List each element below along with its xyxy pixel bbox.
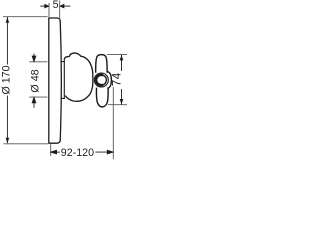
- dim 74: dimension line: [121, 55, 123, 105]
- handle bell dome: [64, 53, 93, 101]
- dim O170: top arrow: [6, 17, 10, 23]
- dim 5: right arrow: [60, 4, 70, 7]
- dim 74: top extension tick: [107, 54, 127, 56]
- svg-text:92-120: 92-120: [61, 147, 94, 159]
- escutcheon plate (side profile): [49, 18, 62, 143]
- dim 5: left extension line: [48, 3, 50, 17]
- dim O170: dimension line: [6, 17, 8, 143]
- dim 5: left arrow: [40, 4, 48, 7]
- svg-text:Ø 170: Ø 170: [0, 65, 12, 94]
- dim O48: bottom extension tick: [29, 96, 47, 98]
- dim 74: bottom extension tick: [108, 104, 127, 106]
- dim 92-120: left arrow: [51, 150, 60, 154]
- dim 74: bottom arrow (pointing down): [120, 99, 124, 105]
- dim 92-120: left extension line: [50, 144, 52, 156]
- svg-text:74: 74: [112, 72, 124, 86]
- dim O48: top extension tick: [29, 61, 47, 63]
- cross handle hub outer circle: [94, 73, 108, 87]
- dim 92-120: right extension line: [112, 87, 114, 159]
- dim O48: bottom arrow (pointing up): [32, 97, 36, 107]
- svg-text:5: 5: [53, 0, 59, 11]
- dim 5: right extension line: [59, 1, 61, 23]
- dim O170: top extension line: [3, 16, 48, 18]
- cross handle hub inner ring: [96, 75, 106, 85]
- svg-text:Ø 48: Ø 48: [30, 69, 42, 92]
- dim O170: bottom arrow: [6, 138, 10, 144]
- handle flange sleeve: [61, 59, 65, 99]
- dim 92-120: right arrow: [95, 150, 113, 154]
- dim 74: top arrow (pointing up): [120, 55, 124, 61]
- cross handle bottom petal: [96, 88, 108, 107]
- dim O48: top arrow (pointing down): [32, 54, 36, 62]
- cross handle top petal: [96, 55, 107, 73]
- cross handle right petal: [107, 72, 111, 89]
- dim O170: bottom extension line: [4, 143, 49, 145]
